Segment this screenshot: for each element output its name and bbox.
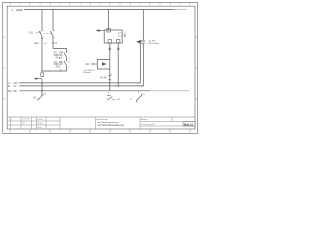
off-page arrow left of T1: [96, 29, 105, 31]
bus L+ labels: [8, 82, 18, 85]
bottom contact K1 diagonal: [136, 95, 142, 100]
svg-text:L1 N: L1 N: [52, 42, 57, 45]
title block right row line: [140, 121, 195, 123]
svg-text:Netz: Netz: [34, 42, 40, 45]
svg-text:Benennung: Benennung: [97, 119, 108, 121]
title block column lines left: [11, 117, 61, 129]
svg-text:Blatt 1/1: Blatt 1/1: [184, 123, 194, 126]
title block Benennung text: [97, 119, 125, 127]
junction dot node 42/71: [41, 70, 42, 71]
wire ladder return to drop A: [42, 70, 67, 72]
fuse F1 label: [53, 52, 63, 60]
switch Q1 label: [29, 31, 39, 35]
device U1 internal symbol: [102, 62, 107, 65]
junction dot node 109/83: [109, 82, 110, 83]
bus M labels: [8, 85, 17, 88]
device box U1: [97, 60, 110, 70]
svg-text:0V: 0V: [14, 85, 17, 88]
svg-text:und Schutzkleinspannung: und Schutzkleinspannung: [98, 124, 125, 127]
fuse F3 ticks: [108, 76, 111, 80]
off-page arrow at node 42/78.6: [34, 78, 42, 80]
junction dot node 42/89.5: [41, 90, 42, 91]
junction dot node 42/83: [41, 82, 42, 83]
svg-text:-Q1: -Q1: [29, 31, 34, 35]
svg-text:Datum: Datum: [37, 118, 43, 121]
terminal circle on output M: [117, 48, 119, 50]
title block Benennung box line: [95, 117, 97, 129]
zone ticks bottom: [10, 129, 190, 133]
svg-text:der Niederspannungs-: der Niederspannungs-: [98, 121, 120, 124]
power supply T1 top terminal: [107, 29, 110, 32]
off-page arrow right of T1 (down): [122, 32, 126, 39]
svg-text:Anlage: Anlage: [141, 118, 148, 121]
switch Q1 contact dots: [41, 30, 42, 31]
bottom contact K1 tick top: [141, 94, 143, 96]
border frame inner: [7, 6, 195, 129]
wire from drop B corner to ladder: [53, 49, 67, 54]
svg-text:24V: 24V: [86, 63, 91, 66]
svg-text:Zeichnungs-Nr.: Zeichnungs-Nr.: [141, 123, 156, 126]
wire drop B x53: [52, 10, 54, 31]
svg-text:Bearb.: Bearb.: [37, 122, 44, 125]
title block Blatt box: [183, 122, 195, 127]
PE stub wire at x42: [41, 91, 43, 94]
svg-text:Netzteil: Netzteil: [84, 71, 92, 74]
junction dot node 117.5/86: [118, 85, 119, 86]
svg-text:-S2: -S2: [33, 96, 37, 99]
wire drop A x42: [41, 10, 43, 31]
svg-text:M: M: [8, 85, 10, 88]
power supply T1 bottom terminal 2: [117, 40, 120, 43]
svg-text:230V 50Hz: 230V 50Hz: [148, 43, 159, 45]
power supply T1 body: [104, 30, 122, 43]
svg-text:Mu: Mu: [22, 123, 25, 125]
wire T1 output M: [117, 43, 119, 86]
fuse F2 body: [41, 73, 44, 77]
wire pair left x140.5: [138, 43, 140, 83]
terminal circle on U1 stub: [92, 63, 94, 65]
wire pair right x143.5: [141, 43, 143, 86]
svg-text:AUS: AUS: [56, 66, 61, 69]
connector X1 arrow: [136, 40, 145, 43]
title block row lines left: [7, 121, 60, 125]
bus PE: [19, 90, 150, 92]
wire U1 through to fuse: [109, 69, 111, 91]
power supply T1 bottom terminal 1: [108, 40, 111, 43]
wire drop C supply input: [108, 10, 110, 31]
ladder pin numbers: [68, 50, 70, 68]
wire drop D x143.5: [142, 10, 144, 41]
svg-text:-X1 PE: -X1 PE: [148, 40, 155, 42]
wire T1 output L+: [109, 43, 111, 60]
wire drop A to bus: [41, 79, 43, 91]
node label L1 rail: [12, 8, 23, 12]
wire L1 rail: [24, 9, 174, 11]
switch Q1 mechanical link (dashed): [44, 33, 52, 35]
title block left cell entries: [11, 119, 29, 125]
bottom contact K1 tick bottom: [136, 101, 138, 103]
svg-text:2A gG: 2A gG: [56, 56, 63, 59]
svg-text:10.02.06: 10.02.06: [22, 119, 29, 121]
tick mark above cluster: [108, 92, 110, 94]
fuse F1 contact on ladder: [64, 53, 67, 62]
border frame outer: [3, 2, 198, 133]
bottom contact X2 horizontal: [107, 96, 115, 100]
switch Q1 pole 2: [51, 31, 54, 49]
switch S1 contact on ladder: [64, 61, 67, 71]
bus M: [19, 85, 143, 87]
zone ticks top: [10, 2, 190, 4]
svg-text:+24V: +24V: [16, 8, 23, 12]
junction dot node 42/38.5: [41, 38, 42, 39]
title block right section line: [139, 117, 141, 129]
title block left labels: [37, 118, 44, 129]
zone numbers top: [19, 3, 181, 6]
title block right row line 2: [140, 125, 195, 127]
zone ticks left: [3, 37, 5, 99]
title block top line: [7, 116, 195, 118]
terminal circle on output L+: [109, 48, 111, 50]
svg-text:-F3 4A: -F3 4A: [100, 77, 107, 80]
title block divider x172: [171, 117, 173, 122]
switch Q1 pole 1: [40, 31, 43, 71]
earth contact S2 circle: [41, 94, 43, 96]
switch Q1 pin numbers: [43, 31, 56, 40]
earth contact S2 diagonal: [37, 96, 41, 100]
device U1 left stub wire: [94, 63, 98, 65]
power supply T1 right terminal: [119, 33, 122, 36]
zone ticks right: [195, 37, 198, 99]
svg-text:Gepr.: Gepr.: [37, 126, 43, 129]
connector X1 label: [148, 40, 159, 45]
bus L+: [19, 82, 140, 84]
svg-text:PE: PE: [14, 90, 18, 93]
tick on PE line: [138, 91, 140, 93]
bus PE labels: [8, 90, 17, 93]
svg-text:PE: PE: [8, 90, 12, 93]
switch Q1 actuator squiggle: [37, 31, 40, 33]
svg-text:(1): (1): [44, 43, 47, 45]
device U1 label: [84, 70, 96, 74]
switch S1 label: [53, 62, 63, 69]
